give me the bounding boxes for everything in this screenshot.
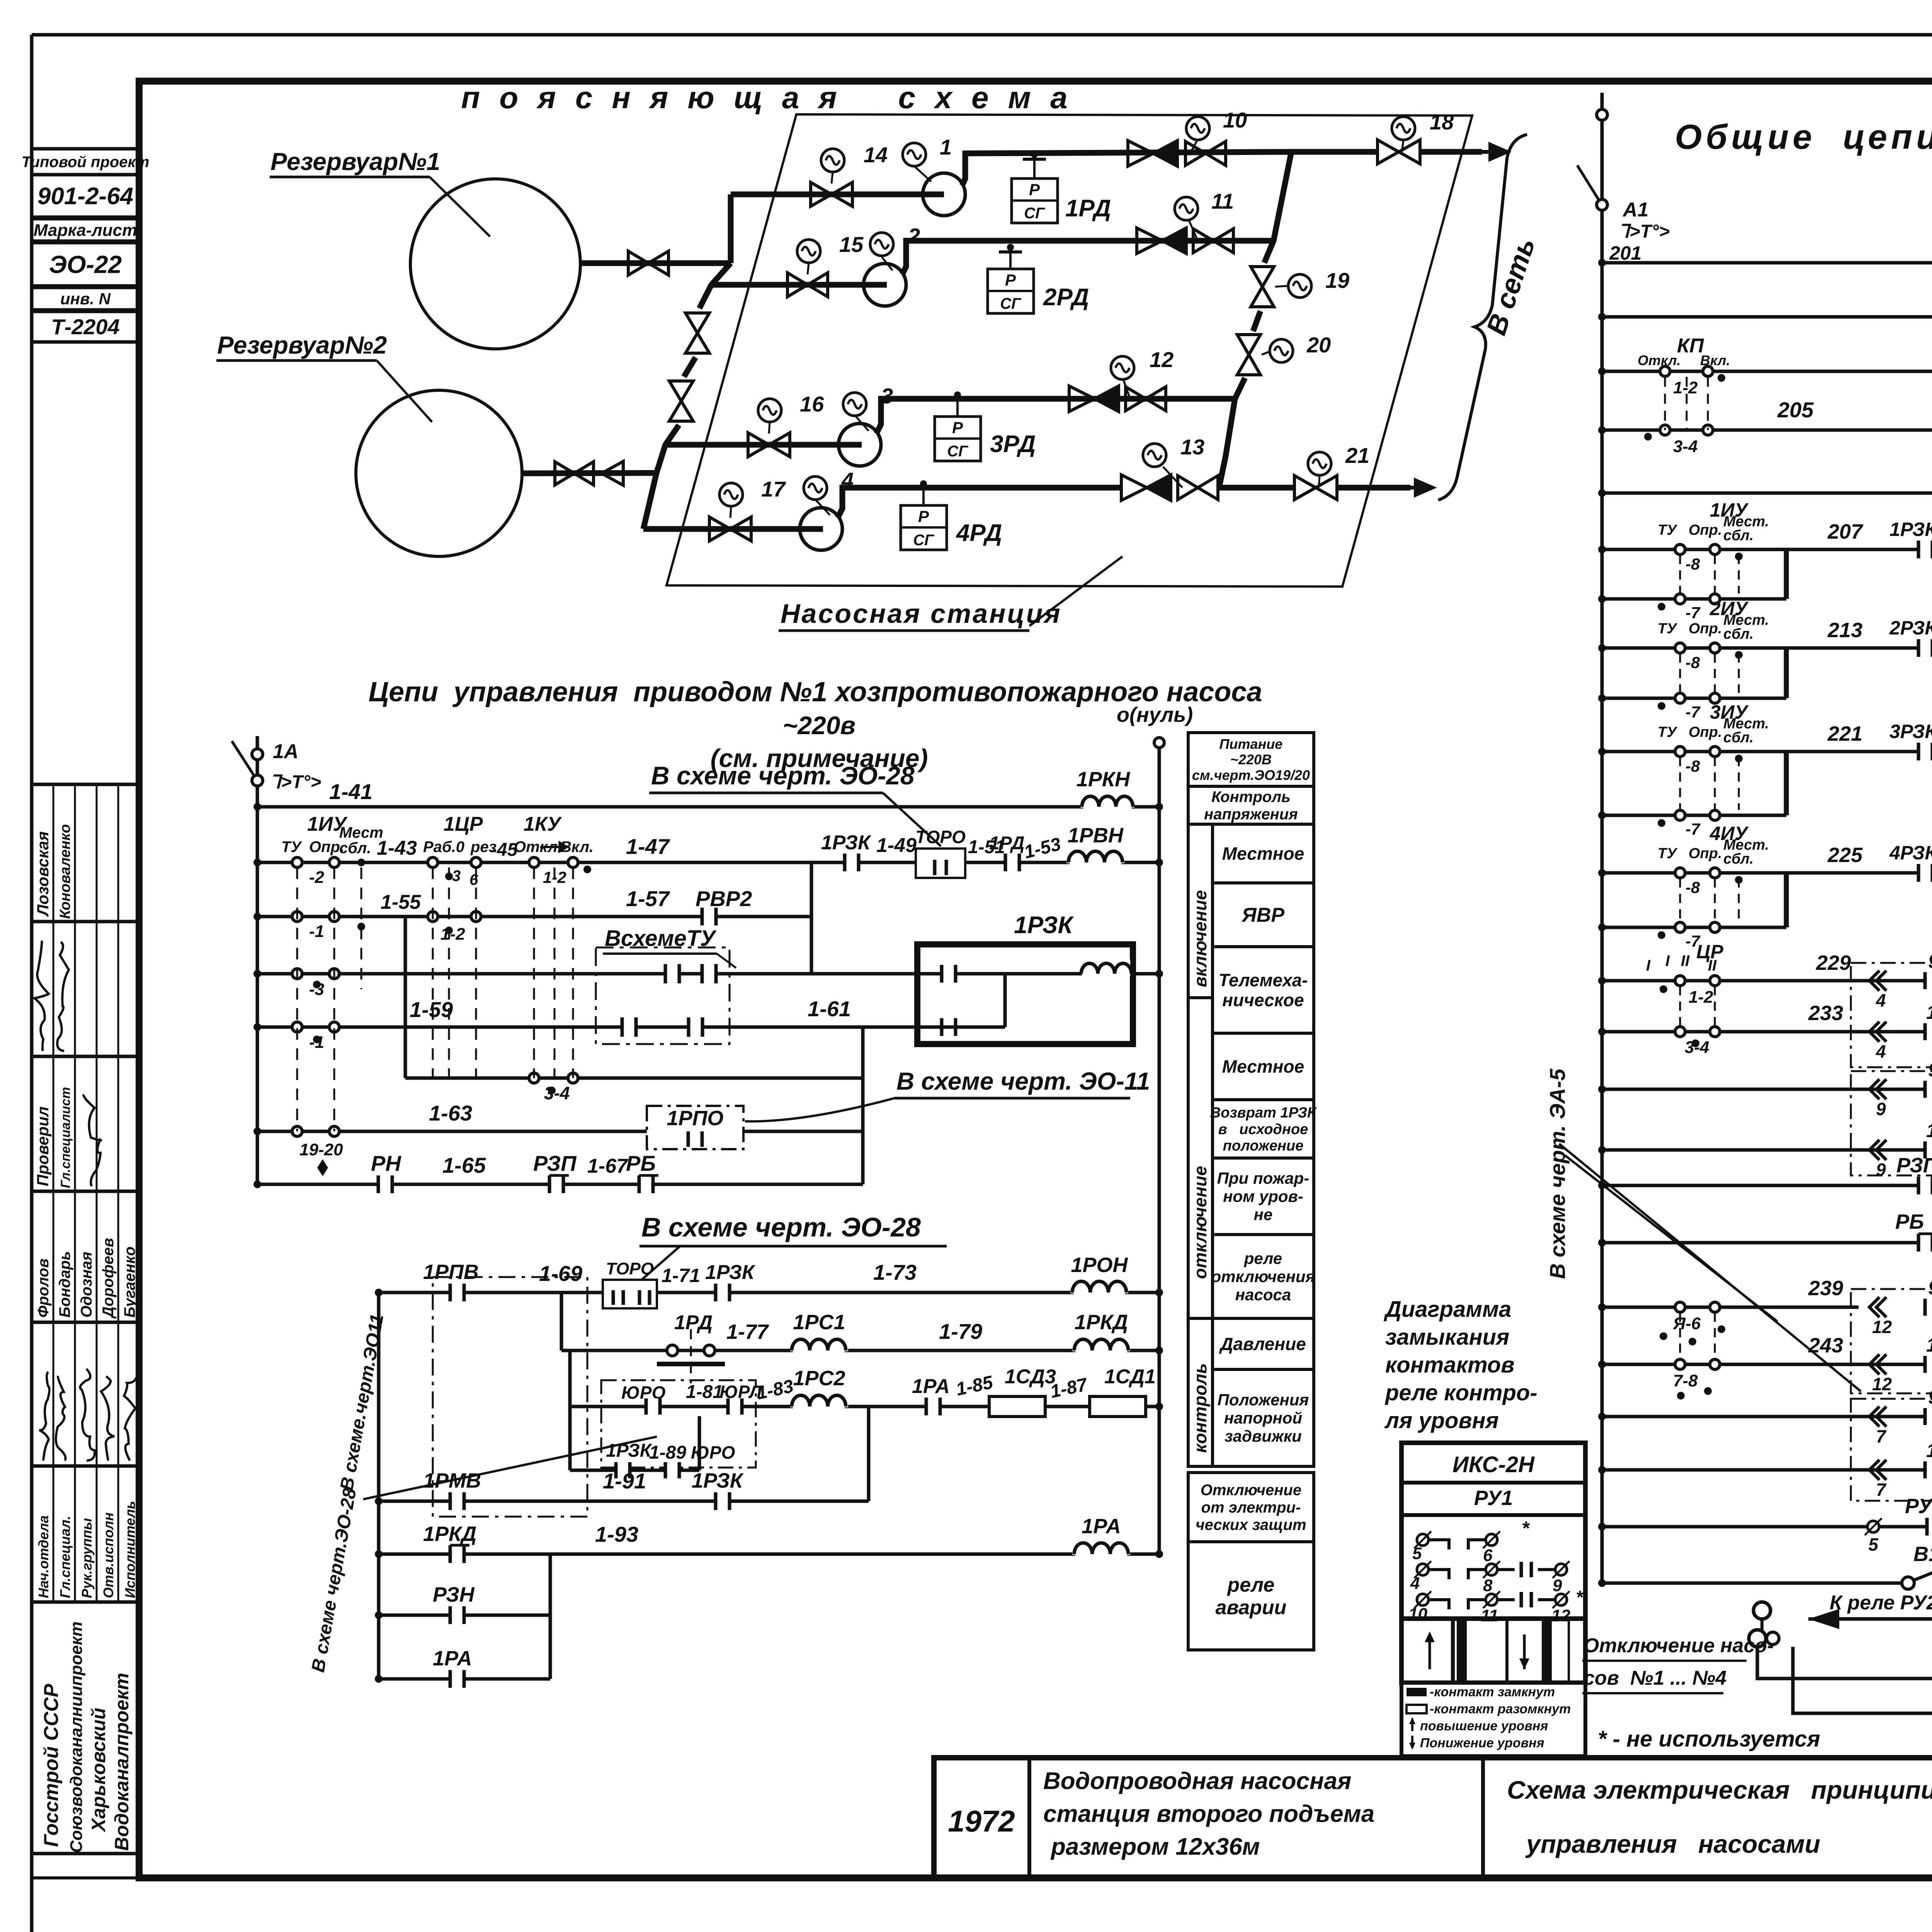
svg-text:1-73: 1-73 <box>873 1260 917 1284</box>
svg-text:Р: Р <box>952 418 963 437</box>
svg-text:Р: Р <box>918 507 929 526</box>
svg-text:5: 5 <box>1412 1544 1422 1563</box>
pressure relay 4РД box <box>922 488 925 505</box>
svg-text:ном уров-: ном уров- <box>1223 1187 1303 1206</box>
svg-text:отключение: отключение <box>1190 1166 1210 1279</box>
junction vertical row1-row3 <box>810 862 813 974</box>
svg-text:в исходное: в исходное <box>1218 1121 1308 1138</box>
svg-text:ля уровня: ля уровня <box>1384 1408 1499 1433</box>
svg-text:В схеме черт. ЭО-28: В схеме черт. ЭО-28 <box>641 1212 921 1242</box>
left ladder supply switch 1А <box>256 736 259 807</box>
valve on reservoir 1 pipe <box>628 251 648 275</box>
svg-text:207: 207 <box>1827 520 1864 543</box>
reservoir 1 suction pipe <box>580 260 731 266</box>
svg-text:12: 12 <box>1150 347 1173 372</box>
svg-text:15: 15 <box>839 232 864 257</box>
svg-text:Гл.специалист: Гл.специалист <box>58 1087 73 1188</box>
row-6 wire 1-63 1РПО <box>257 1130 863 1133</box>
svg-text:Схема электрическая принципи: Схема электрическая принципиальная <box>1507 1776 1932 1804</box>
svg-text:Опр.: Опр. <box>1689 724 1722 740</box>
svg-text:Водопроводная насосная: Водопроводная насосная <box>1043 1768 1351 1794</box>
svg-text:аварии: аварии <box>1216 1596 1287 1619</box>
svg-text:напорной: напорной <box>1224 1409 1302 1427</box>
wire bottom rung 249 with В1 <box>1602 1582 1904 1585</box>
relay 1РЗК thick box <box>917 944 1133 1044</box>
valve 21 <box>1294 476 1316 500</box>
svg-text:ЮРО: ЮРО <box>691 1442 735 1463</box>
svg-text:2: 2 <box>908 224 920 248</box>
pump 1 <box>923 173 965 216</box>
svg-text:4РЗК: 4РЗК <box>1889 842 1932 864</box>
svg-text:не: не <box>1254 1206 1273 1224</box>
svg-text:1-49: 1-49 <box>876 834 917 857</box>
svg-text:1-89: 1-89 <box>649 1442 686 1463</box>
svg-text:Опр.: Опр. <box>1689 621 1722 637</box>
svg-text:1КУ: 1КУ <box>524 813 562 835</box>
svg-text:ТУ: ТУ <box>281 838 302 855</box>
wire rung РЗП lower <box>1602 1184 1932 1187</box>
mid column pump off relay box <box>1213 1235 1314 1318</box>
svg-text:9: 9 <box>1553 1576 1562 1595</box>
svg-text:В схеме черт. ЭО-28: В схеме черт. ЭО-28 <box>651 761 915 790</box>
svg-text:задвижки: задвижки <box>1225 1427 1302 1445</box>
relay 1РПО dashed box <box>647 1106 743 1149</box>
1РЗК internal contact upper <box>917 972 989 976</box>
svg-text:Резервуар№1: Резервуар№1 <box>270 148 440 175</box>
sidebar band checked-by names <box>32 784 139 922</box>
svg-text:Опр.: Опр. <box>1689 522 1722 538</box>
svg-text:17: 17 <box>761 477 786 501</box>
svg-text:Харьковский: Харьковский <box>88 1708 109 1833</box>
svg-text:положение: положение <box>1223 1138 1304 1154</box>
svg-text:контактов: контактов <box>1385 1352 1514 1378</box>
svg-text:Отключение: Отключение <box>1201 1482 1301 1499</box>
outlet arrow top (в сеть) <box>1420 149 1482 155</box>
title block outline <box>934 1758 1932 1878</box>
svg-text:1-91: 1-91 <box>603 1469 646 1493</box>
svg-text:10г: 10г <box>1926 1002 1932 1023</box>
pressure relay 3РД box <box>956 400 959 417</box>
svg-text:-2: -2 <box>309 868 325 887</box>
svg-text:4: 4 <box>1876 990 1886 1010</box>
gauge 20 <box>1262 352 1269 355</box>
mech link dashes 1КУ <box>533 867 535 1078</box>
gauge 1 <box>914 166 931 182</box>
svg-text:19: 19 <box>1325 268 1349 293</box>
manifold valve lower <box>669 381 693 401</box>
svg-text:205: 205 <box>1777 398 1814 422</box>
valve 14 <box>811 182 832 206</box>
svg-text:В схеме черт. ЭО-11: В схеме черт. ЭО-11 <box>896 1067 1150 1095</box>
svg-text:9г: 9г <box>1928 1386 1932 1408</box>
svg-text:При пожар-: При пожар- <box>1217 1169 1309 1187</box>
gauge 21 <box>1319 476 1320 488</box>
svg-text:1972: 1972 <box>948 1804 1015 1838</box>
svg-text:9: 9 <box>1876 1160 1886 1180</box>
svg-text:~220В: ~220В <box>1230 752 1272 767</box>
wire rung 235 upper <box>1602 1088 1932 1091</box>
row-1 wire 1-43 1-47 1-53 <box>257 861 1159 864</box>
svg-text:II: II <box>1681 952 1690 969</box>
svg-text:Р: Р <box>1005 271 1016 289</box>
pump 1 suction branch <box>728 194 734 263</box>
svg-text:1РС2: 1РС2 <box>793 1367 845 1390</box>
svg-text:221: 221 <box>1827 722 1862 745</box>
valve 17 <box>709 517 730 541</box>
pump station parallelogram <box>667 114 1472 587</box>
svg-text:Питание: Питание <box>1219 736 1283 752</box>
svg-text:1-59: 1-59 <box>410 997 453 1022</box>
check valve on header 4 <box>1121 475 1147 500</box>
svg-text:1РЗК: 1РЗК <box>692 1469 744 1492</box>
wire rung 239 241 РППУ <box>1602 1306 1932 1309</box>
РУ1 contact pins row 3 <box>1417 1594 1429 1605</box>
svg-text:-8: -8 <box>1685 757 1700 775</box>
svg-text:7: 7 <box>1876 1426 1887 1446</box>
svg-text:-8: -8 <box>1685 555 1700 573</box>
svg-text:1-47: 1-47 <box>626 834 670 859</box>
svg-text:В1: В1 <box>1913 1543 1932 1566</box>
wire rung 10г lower <box>1602 1148 1932 1152</box>
wire rung 245 РПАУ <box>1602 1415 1932 1418</box>
collector valve 20 <box>1237 335 1260 355</box>
В схеме ТУ contacts lower <box>622 1017 636 1037</box>
svg-text:* - не используется: * - не используется <box>1598 1726 1820 1752</box>
svg-text:1РПО: 1РПО <box>667 1107 724 1130</box>
svg-text:14: 14 <box>864 143 888 167</box>
gauge 10 <box>1190 139 1198 153</box>
outlet arrow bottom <box>1337 485 1410 491</box>
svg-text:ТУ: ТУ <box>1658 845 1678 862</box>
svg-text:1-69: 1-69 <box>539 1261 582 1286</box>
wire rung 10г bottom <box>1602 1468 1932 1472</box>
svg-text:1-2: 1-2 <box>1689 988 1713 1007</box>
mech link dashes 1ИУ <box>296 867 298 1131</box>
gauge 12 <box>1124 381 1130 399</box>
svg-text:ТУ: ТУ <box>1658 621 1678 637</box>
svg-text:1РКД: 1РКД <box>423 1522 476 1546</box>
svg-text:3РД: 3РД <box>990 431 1036 457</box>
valve 16 <box>748 433 769 457</box>
selector 3ИУ link verticals <box>1784 752 1789 815</box>
svg-text:11: 11 <box>1481 1606 1498 1625</box>
svg-text:ИКС-2Н: ИКС-2Н <box>1452 1452 1535 1477</box>
svg-text:ческих защит: ческих защит <box>1196 1516 1306 1533</box>
svg-text:Госстрой СССР: Госстрой СССР <box>40 1684 63 1847</box>
svg-text:СГ: СГ <box>947 443 969 460</box>
svg-text:*: * <box>1522 1517 1530 1539</box>
svg-text:станция второго подъема: станция второго подъема <box>1043 1801 1374 1827</box>
check valve on header 3 <box>1069 386 1095 412</box>
svg-text:сбл.: сбл. <box>1723 730 1753 746</box>
svg-text:1-2: 1-2 <box>1673 378 1698 397</box>
svg-text:-3: -3 <box>309 980 324 999</box>
mid column local box <box>1213 824 1314 883</box>
svg-text:Марка-лист: Марка-лист <box>34 221 137 240</box>
selector 4ИУ contacts row A <box>1602 871 1786 875</box>
row-11 wire 1РМВ 1-91 1РЗК <box>379 1500 869 1503</box>
leader line to ЮРО box <box>363 1437 657 1499</box>
link dashes Я-6 7-8 <box>1679 1313 1681 1359</box>
svg-text:1РЗК: 1РЗК <box>705 1261 755 1284</box>
pump 1 discharge header <box>962 152 1291 185</box>
svg-text:Фролов: Фролов <box>35 1259 52 1318</box>
svg-text:-контакт замкнут: -контакт замкнут <box>1430 1685 1555 1699</box>
svg-text:213: 213 <box>1827 619 1862 642</box>
left ladder left rail <box>256 807 259 1184</box>
svg-text:1РОН: 1РОН <box>1071 1253 1128 1277</box>
reservoir 1 tank <box>410 179 580 349</box>
svg-text:4РД: 4РД <box>956 520 1002 546</box>
sidebar band signatures 2 <box>32 1322 139 1466</box>
svg-text:Рук.группы: Рук.группы <box>79 1518 95 1598</box>
svg-text:9: 9 <box>1876 1099 1886 1119</box>
svg-text:901-2-64: 901-2-64 <box>37 183 133 210</box>
mid column local-2 box <box>1213 1033 1314 1100</box>
gauge 15 <box>808 263 809 274</box>
outlet header top <box>1291 149 1376 155</box>
svg-text:-8: -8 <box>1685 878 1700 896</box>
wire rung 243 <box>1602 1363 1932 1366</box>
selector 1ИУ contacts row A <box>1602 548 1786 551</box>
svg-text:реле контро-: реле контро- <box>1384 1380 1537 1405</box>
svg-text:1-2: 1-2 <box>440 925 465 944</box>
svg-text:ническое: ническое <box>1222 990 1304 1010</box>
svg-text:РЗП: РЗП <box>533 1151 577 1175</box>
pump 2 discharge header <box>902 241 1274 274</box>
svg-text:10г: 10г <box>1926 1334 1932 1356</box>
right supply switch А1 <box>1600 93 1604 263</box>
pump trip circles <box>1753 1602 1770 1619</box>
gate valve on header 1 <box>1185 141 1206 165</box>
svg-text:1РКН: 1РКН <box>1077 768 1130 791</box>
svg-text:Р: Р <box>1029 180 1040 199</box>
row-3 wire to 1РЗК relay <box>257 972 917 976</box>
svg-text:~220в: ~220в <box>783 711 856 740</box>
check triangle on reservoir 2 pipe <box>602 461 623 485</box>
svg-text:Ꞁ>Т°>: Ꞁ>Т°> <box>1619 221 1670 242</box>
gauge 16 <box>769 422 770 434</box>
КП contacts 3-4 <box>1660 425 1670 435</box>
В схеме ТУ contacts upper <box>665 964 679 983</box>
gate valve on header 3 <box>1126 387 1146 411</box>
svg-text:РБ: РБ <box>1895 1210 1924 1233</box>
sidebar band roles 1 <box>32 1056 139 1191</box>
svg-text:1-55: 1-55 <box>381 891 421 913</box>
РУ1 contact pins row 2 <box>1417 1564 1429 1575</box>
mid column rotated label контроль <box>1188 1318 1213 1466</box>
gauge 19 <box>1275 286 1287 287</box>
wire top bus 201 with РН coil <box>1602 261 1932 265</box>
mid column voltage control box <box>1188 786 1314 824</box>
mid column telemech box <box>1213 947 1314 1033</box>
svg-text:1СД1: 1СД1 <box>1104 1366 1156 1388</box>
svg-text:1-71: 1-71 <box>662 1265 700 1286</box>
svg-text:II: II <box>1708 957 1717 974</box>
svg-text:ТУ: ТУ <box>1658 522 1678 538</box>
svg-text:I: I <box>1665 952 1670 969</box>
legend box <box>1401 1683 1585 1756</box>
svg-text:1-43: 1-43 <box>377 837 417 859</box>
row-7 bottom wire РН 1-65 РЗП 1-67 РБ <box>257 1183 863 1186</box>
svg-text:Резервуар№2: Резервуар№2 <box>217 331 387 359</box>
svg-text:1РКД: 1РКД <box>1075 1311 1128 1334</box>
svg-text:сов №1 ... №4: сов №1 ... №4 <box>1583 1667 1726 1689</box>
svg-text:Местное: Местное <box>1222 844 1304 864</box>
mid column pressure box <box>1213 1318 1314 1369</box>
svg-text:3-4: 3-4 <box>1673 437 1698 456</box>
svg-text:Насосная станция: Насосная станция <box>781 599 1062 629</box>
mid column return box <box>1213 1100 1314 1158</box>
svg-text:повышение уровня: повышение уровня <box>1420 1719 1548 1733</box>
svg-text:Диаграмма: Диаграмма <box>1383 1297 1511 1322</box>
svg-text:1-81: 1-81 <box>686 1382 723 1402</box>
svg-text:Одозная: Одозная <box>78 1252 95 1318</box>
relay coil 1РА <box>1072 1539 1130 1555</box>
wire rung 233 <box>1602 1030 1932 1034</box>
svg-text:16: 16 <box>800 392 824 416</box>
row-10 dash-dot box ЮРО ЮРЛ <box>601 1380 756 1468</box>
svg-text:1РА: 1РА <box>1082 1515 1121 1538</box>
suction manifold <box>699 263 731 308</box>
relay coil 1РС2 <box>790 1392 848 1407</box>
chevron box upper <box>1851 963 1932 1067</box>
svg-text:9г: 9г <box>1928 1059 1932 1081</box>
lower block left rail <box>377 1293 381 1679</box>
svg-text:2РД: 2РД <box>1043 284 1089 311</box>
svg-text:7-8: 7-8 <box>1673 1371 1698 1390</box>
svg-text:239: 239 <box>1808 1277 1843 1300</box>
svg-text:1РЗК: 1РЗК <box>1889 519 1932 540</box>
row-9 wire 1-77 1-79 1РКД <box>560 1293 563 1350</box>
svg-text:управления насосами: управления насосами <box>1525 1830 1820 1858</box>
svg-text:1РЗК: 1РЗК <box>821 832 871 854</box>
svg-text:замыкания: замыкания <box>1385 1325 1509 1350</box>
svg-text:1-79: 1-79 <box>939 1319 982 1344</box>
svg-text:1СД3: 1СД3 <box>1005 1366 1056 1388</box>
svg-text:Союзводоканалниипроект: Союзводоканалниипроект <box>67 1621 86 1853</box>
svg-text:2РЗК: 2РЗК <box>1889 617 1932 639</box>
svg-text:сбл.: сбл. <box>1723 626 1753 642</box>
row-1 contact ТОРО in box <box>916 849 965 878</box>
КП mech link dashes <box>1664 377 1666 430</box>
svg-text:Гл.специал.: Гл.специал. <box>57 1516 73 1598</box>
svg-text:сбл.: сбл. <box>1723 851 1753 867</box>
svg-text:Возврат 1РЗК: Возврат 1РЗК <box>1210 1105 1317 1121</box>
svg-text:201: 201 <box>1609 242 1641 264</box>
svg-text:-7: -7 <box>1685 604 1701 622</box>
svg-text:8: 8 <box>1483 1576 1493 1595</box>
rung КП-РЗП <box>1602 370 1932 373</box>
chevron box 239-243 <box>1851 1289 1932 1393</box>
selector 2ИУ link verticals <box>1784 648 1789 698</box>
sidebar stamp boxes top <box>32 149 139 175</box>
svg-text:Ꞁ>Т°>: Ꞁ>Т°> <box>270 772 321 793</box>
svg-text:3-4: 3-4 <box>544 1083 570 1103</box>
svg-text:Телемеха-: Телемеха- <box>1219 970 1308 990</box>
svg-text:19-20: 19-20 <box>299 1140 343 1159</box>
В схеме ТУ dash-dot box left <box>596 947 730 1044</box>
svg-text:Проверил: Проверил <box>34 1106 52 1186</box>
svg-text:СГ: СГ <box>1024 205 1046 222</box>
mid column АВР box <box>1213 883 1314 947</box>
check valve on header 2 <box>1137 228 1162 253</box>
sidebar long empty box <box>32 342 139 784</box>
svg-text:-1: -1 <box>309 1033 324 1052</box>
svg-text:3-4: 3-4 <box>1685 1038 1709 1057</box>
svg-text:Местное: Местное <box>1222 1056 1304 1077</box>
svg-text:Бондарь: Бондарь <box>56 1251 73 1318</box>
row-2 contact РВР2 <box>702 908 716 925</box>
svg-text:Водоканалпроект: Водоканалпроект <box>111 1673 133 1851</box>
selector 3ИУ contacts row B <box>1602 814 1786 817</box>
wire bus 203 bottom <box>1602 492 1932 495</box>
svg-text:225: 225 <box>1827 844 1863 867</box>
svg-text:РУ1: РУ1 <box>1905 1495 1932 1518</box>
gate valve on header 4 <box>1178 476 1198 500</box>
relay coil 1РКН <box>1080 792 1134 808</box>
row-8 ТОРО box contacts <box>603 1280 657 1308</box>
gauge 17 <box>730 506 731 518</box>
svg-text:см.черт.ЭО19/20: см.черт.ЭО19/20 <box>1192 767 1310 783</box>
svg-text:3: 3 <box>452 867 461 884</box>
svg-text:1РПВ: 1РПВ <box>423 1260 479 1284</box>
svg-text:9г: 9г <box>1928 1277 1932 1299</box>
gauge 3 <box>856 417 869 431</box>
row-13 wire РЗН <box>379 1614 550 1617</box>
svg-text:Я-6: Я-6 <box>1673 1314 1701 1333</box>
svg-text:от электри-: от электри- <box>1201 1499 1301 1516</box>
svg-text:Лозовская: Лозовская <box>34 831 52 917</box>
svg-text:1РА: 1РА <box>433 1647 472 1670</box>
reservoir 2 suction pipe <box>522 473 656 473</box>
relay coil 1РС1 <box>790 1336 848 1351</box>
svg-text:Понижение уровня: Понижение уровня <box>1420 1736 1544 1750</box>
selector 1ИУ contacts row B <box>1602 597 1786 601</box>
pump 4 <box>800 508 842 550</box>
svg-text:10: 10 <box>1408 1605 1427 1624</box>
svg-text:9г: 9г <box>1928 951 1932 972</box>
dash-dot box 1РПВ 1РМВ <box>433 1277 587 1517</box>
svg-text:21: 21 <box>1345 443 1369 468</box>
svg-text:3РЗК: 3РЗК <box>1889 721 1932 742</box>
svg-text:размером 12х36м: размером 12х36м <box>1050 1833 1260 1860</box>
row-2 wire 1-55 1-57 <box>257 915 811 918</box>
svg-text:отключения: отключения <box>1211 1267 1315 1286</box>
svg-text:229: 229 <box>1816 951 1851 975</box>
chevron box 245 area <box>1851 1399 1932 1501</box>
selector 4ИУ link verticals <box>1784 873 1789 927</box>
svg-text:-7: -7 <box>1685 820 1701 838</box>
svg-text:РБ: РБ <box>626 1151 656 1175</box>
relay coil 1РОН <box>1070 1278 1128 1293</box>
selector 2ИУ contacts row A <box>1602 646 1786 650</box>
mid column rotated label отключение <box>1188 998 1213 1318</box>
svg-text:Типовой проект: Типовой проект <box>22 154 150 171</box>
svg-text:Коноваленко: Коноваленко <box>57 824 73 919</box>
selector 4ИУ contacts row B <box>1602 926 1786 929</box>
svg-text:1-63: 1-63 <box>429 1101 472 1125</box>
valve 18 <box>1378 140 1399 164</box>
selector 2ИУ contacts row B <box>1602 697 1786 700</box>
РУ1 contact pins row 1 <box>1417 1534 1429 1546</box>
gauge 4 <box>816 500 830 515</box>
svg-text:Цепи управления приводом №1: Цепи управления приводом №1 хозпротивопо… <box>369 677 1262 707</box>
wire bus 203 <box>1602 315 1932 319</box>
chevron contact 9г row 229 <box>1851 979 1932 983</box>
gauge 18 <box>1402 140 1403 152</box>
gauge 11 <box>1189 219 1198 241</box>
